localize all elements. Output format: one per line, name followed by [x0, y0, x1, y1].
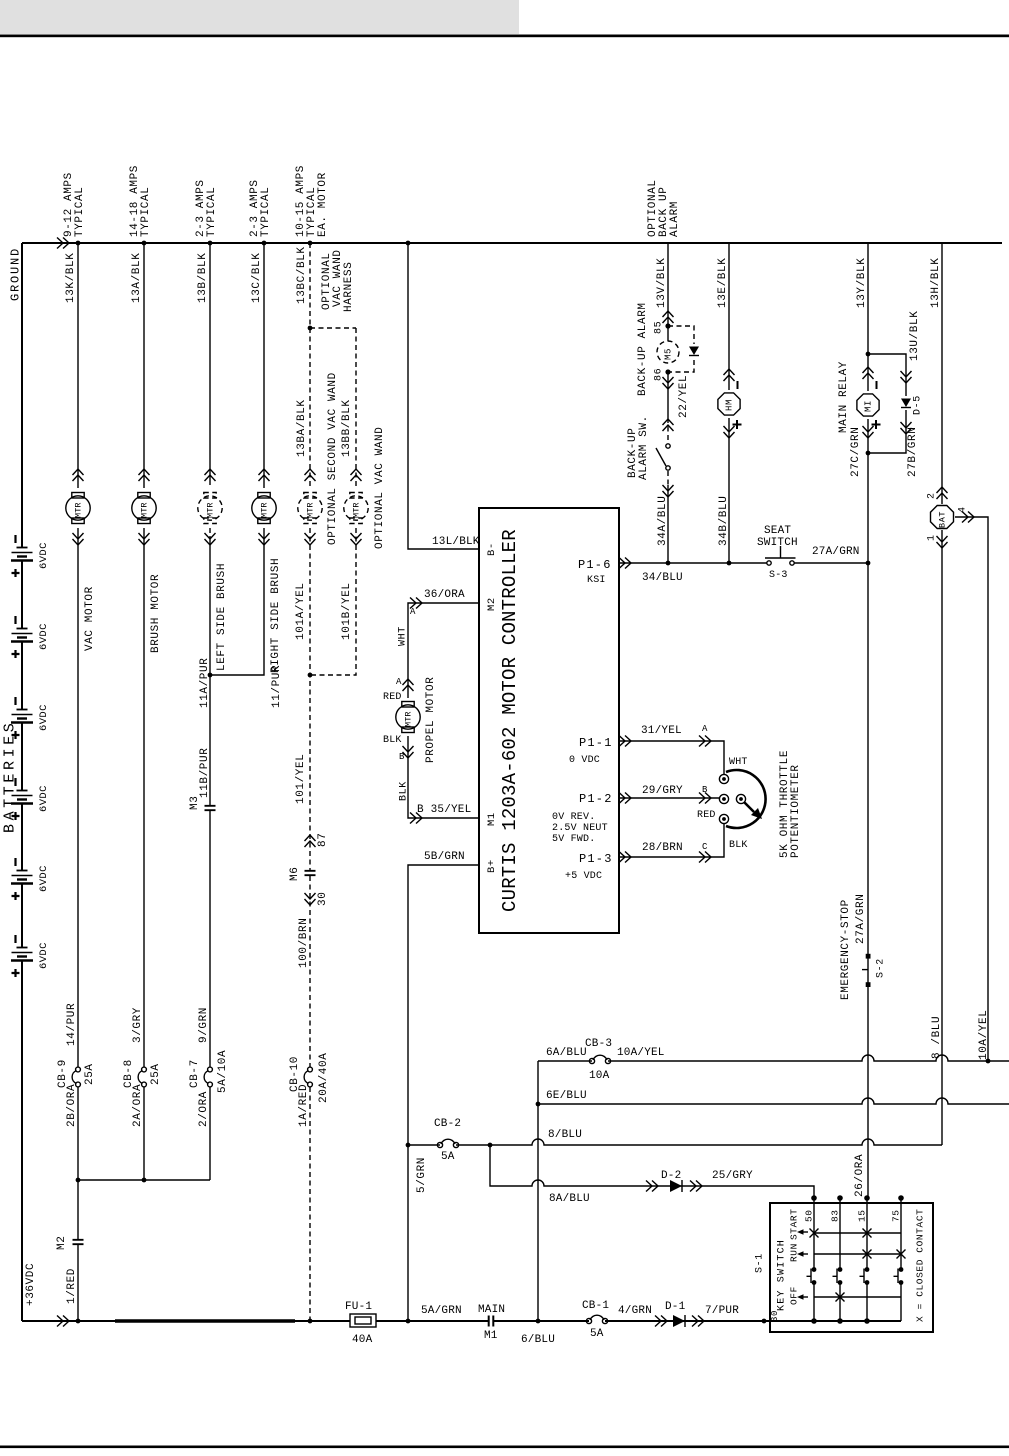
connector chevron 30 [305, 893, 316, 905]
connector chevron BAT 4 [962, 512, 974, 523]
keyswitch X start 15 [863, 1229, 872, 1238]
connector chevron P1-2 a [619, 793, 631, 804]
svg-text:34B/BLU: 34B/BLU [718, 496, 730, 546]
connector chevron P1-3 a [619, 852, 631, 863]
svg-text:D-5: D-5 [913, 395, 924, 415]
svg-text:VAC MOTOR: VAC MOTOR [84, 586, 96, 651]
node junction 5/GRN bus [406, 1319, 411, 1324]
svg-text:6/BLU: 6/BLU [521, 1334, 555, 1346]
svg-text:4: 4 [958, 506, 969, 513]
svg-text:14/PUR: 14/PUR [66, 1003, 78, 1046]
contact M2 [73, 1240, 84, 1244]
svg-text:30: 30 [770, 1310, 780, 1322]
node keyswitch pin 83 bottom [837, 1318, 843, 1324]
battery B1 6VDC [17, 547, 28, 549]
connector chevron above switch [663, 419, 674, 431]
svg-text:7/PUR: 7/PUR [705, 1305, 739, 1317]
connector chevron BAT 1 [937, 536, 948, 548]
svg-text:83: 83 [829, 1209, 840, 1222]
connector chevron D-2 right [690, 1181, 702, 1192]
svg-text:S-2: S-2 [876, 958, 887, 978]
svg-text:11A/PUR: 11A/PUR [199, 658, 211, 708]
svg-text:22/YEL: 22/YEL [678, 375, 690, 418]
svg-text:S-1: S-1 [755, 1253, 766, 1273]
svg-text:M2: M2 [56, 1236, 68, 1250]
svg-text:D-1: D-1 [665, 1301, 686, 1313]
header gray bar [0, 0, 519, 34]
svg-text:6VDC: 6VDC [38, 623, 50, 650]
connector chevron P1-6 [619, 558, 631, 569]
connector chevron col5 upper [305, 469, 316, 481]
svg-text:P1-2: P1-2 [579, 792, 613, 806]
connector chevron 87 [305, 835, 316, 847]
svg-text:M1: M1 [484, 1330, 498, 1342]
connector chevron MI bottom [863, 426, 874, 438]
node junction 8A branch [488, 1143, 493, 1148]
relay MI main relay coil [857, 394, 879, 416]
svg-text:BATTERIES: BATTERIES [1, 720, 18, 833]
svg-text:CURTIS 1203A-602 MOTOR CONTROL: CURTIS 1203A-602 MOTOR CONTROLLER [499, 529, 521, 912]
node junction 10A/YEL [986, 1059, 991, 1064]
wire 27C/GRN [867, 419, 869, 563]
label minus HM [737, 381, 739, 389]
svg-text:6VDC: 6VDC [38, 865, 50, 892]
svg-text:13A/BLK: 13A/BLK [131, 253, 143, 303]
node junction 27A emergency column [866, 561, 871, 566]
svg-text:13K/BLK: 13K/BLK [65, 253, 77, 303]
svg-text:EMERGENCY-STOP: EMERGENCY-STOP [840, 899, 852, 1000]
svg-text:MAIN: MAIN [478, 1304, 505, 1316]
node junction bus CB-10 [308, 1319, 313, 1324]
node keyswitch pin 15 top [864, 1195, 870, 1201]
connector chevron 34A [663, 485, 674, 497]
svg-text:101A/YEL: 101A/YEL [295, 582, 307, 640]
wire dashed below switch [667, 471, 669, 485]
node keyswitch pin 50 bottom [811, 1318, 817, 1324]
connector chevron P1-2 b [699, 793, 711, 804]
svg-text:6E/BLU: 6E/BLU [546, 1090, 587, 1102]
battery B2 6VDC [17, 628, 28, 630]
wire battery string [21, 243, 23, 1321]
motor M - PROPEL MOTOR [402, 702, 414, 708]
svg-text:2B/ORA: 2B/ORA [66, 1084, 78, 1127]
node junction 11A/PUR [208, 673, 213, 678]
svg-text:6VDC: 6VDC [38, 942, 50, 969]
svg-text:11/PUR: 11/PUR [271, 665, 283, 708]
wire 31/YEL [619, 741, 724, 775]
connector chevron propel B [403, 746, 414, 758]
connector chevron D-1 right [692, 1316, 704, 1327]
svg-text:13BC/BLK: 13BC/BLK [296, 246, 308, 304]
node dashed branch junction [308, 326, 313, 331]
svg-text:13E/BLK: 13E/BLK [717, 258, 729, 308]
circuit breaker CB-8 [142, 1067, 147, 1072]
wire 34A/BLU [667, 485, 669, 563]
wire 29/GRY [619, 797, 719, 799]
switch S-3 seat switch [767, 561, 771, 565]
wire dashed to switch [667, 418, 669, 443]
battery B4 6VDC [17, 790, 28, 792]
svg-text:POTENTIOMETER: POTENTIOMETER [790, 764, 802, 858]
motor M - VAC MOTOR [72, 493, 84, 499]
connector chevron col4 lower [259, 533, 270, 545]
wire keyswitch START row [814, 1232, 901, 1234]
wire 13B/BLK / 9/GRN column [209, 243, 211, 1180]
connector chevron col1 lower [73, 533, 84, 545]
svg-text:8A/BLU: 8A/BLU [549, 1193, 590, 1205]
contact M6 [305, 871, 316, 875]
svg-text:13Y/BLK: 13Y/BLK [856, 258, 868, 308]
svg-text:0V REV.: 0V REV. [552, 812, 595, 823]
bottom rule [0, 1446, 1009, 1449]
circuit breaker CB-3 [589, 1058, 594, 1063]
svg-text:0 VDC: 0 VDC [569, 755, 600, 766]
svg-text:A: A [396, 677, 402, 687]
connector chevron MI top [863, 367, 874, 379]
svg-text:2A/ORA: 2A/ORA [132, 1084, 144, 1127]
switch back-up alarm sw [666, 444, 670, 448]
ground bus [22, 242, 1002, 244]
connector chevron col1 upper [73, 469, 84, 481]
diode D-5 [901, 399, 911, 408]
wire 13BB/BLK dashed column [310, 328, 356, 675]
node keyswitch pin 75 top [898, 1195, 904, 1201]
svg-text:31/YEL: 31/YEL [641, 725, 682, 737]
svg-text:HARNESS: HARNESS [343, 262, 355, 312]
svg-text:2/ORA: 2/ORA [198, 1091, 210, 1127]
svg-text:S-3: S-3 [769, 570, 788, 581]
svg-text:P1-6: P1-6 [578, 558, 612, 572]
node ground junction col2 [142, 241, 147, 246]
connector chevron 35/YEL [410, 813, 422, 824]
connector chevron HM top [724, 369, 735, 381]
svg-text:3/GRY: 3/GRY [132, 1007, 144, 1043]
wire 13E/BLK [728, 243, 730, 390]
svg-text:RED: RED [383, 692, 402, 703]
wire dashed stubs left brush motor [209, 480, 211, 536]
svg-text:MTR: MTR [140, 502, 150, 518]
wire 28/BRN [619, 823, 724, 857]
svg-text:10A/YEL: 10A/YEL [617, 1047, 665, 1059]
svg-text:13V/BLK: 13V/BLK [656, 258, 668, 308]
svg-text:B-: B- [486, 542, 498, 556]
connector chevron P1-1 b [699, 736, 711, 747]
node keyswitch pin 50 top [811, 1195, 817, 1201]
svg-text:13BB/BLK: 13BB/BLK [341, 399, 353, 457]
svg-text:86: 86 [654, 368, 665, 381]
label plus HM [733, 420, 742, 429]
svg-text:P1-1: P1-1 [579, 736, 613, 750]
connector chevron P1-1 a [619, 736, 631, 747]
svg-text:B: B [399, 752, 405, 762]
svg-text:LEFT SIDE BRUSH: LEFT SIDE BRUSH [216, 563, 228, 671]
keyswitch contact 3 [865, 1267, 870, 1272]
node keyswitch pin 83 top [837, 1195, 843, 1201]
label plus MI [872, 420, 881, 429]
svg-text:4/GRN: 4/GRN [618, 1305, 652, 1317]
keyswitch X run 15 [863, 1250, 872, 1259]
svg-text:OFF: OFF [788, 1286, 799, 1305]
svg-text:29/GRY: 29/GRY [642, 785, 683, 797]
wire 8/BLU column [941, 530, 943, 1145]
wire 27A/GRN emergency [867, 563, 869, 1198]
svg-text:13B/BLK: 13B/BLK [197, 253, 209, 303]
svg-text:13L/BLK: 13L/BLK [432, 536, 480, 548]
node junction relay bottom [866, 451, 871, 456]
svg-text:87: 87 [317, 833, 329, 847]
svg-text:BRUSH MOTOR: BRUSH MOTOR [150, 574, 162, 653]
svg-text:MAIN RELAY: MAIN RELAY [838, 361, 850, 433]
node junction col5 wand join [308, 673, 313, 678]
svg-text:101/YEL: 101/YEL [295, 754, 307, 804]
node junction row col2 [142, 1178, 147, 1183]
node junction bus 6/BLU [536, 1319, 541, 1324]
keyswitch X off 83 [836, 1293, 845, 1302]
svg-text:25A: 25A [84, 1063, 96, 1085]
switch S-1 key switch box [770, 1203, 933, 1332]
wire 13C/BLK column [210, 243, 264, 675]
connector chevron col4 upper [259, 469, 270, 481]
svg-text:WHT: WHT [398, 626, 409, 646]
label minus MI [876, 381, 878, 389]
wire 8A/BLU - 25/GRY [490, 1145, 814, 1198]
svg-text:+36VDC: +36VDC [25, 1263, 37, 1306]
wire bus heavy segment [115, 1319, 295, 1322]
circuit breaker CB-9 [76, 1067, 81, 1072]
svg-text:ALARM: ALARM [669, 201, 681, 237]
svg-text:START: START [788, 1208, 799, 1240]
svg-text:2: 2 [927, 492, 938, 499]
node junction bus col1 [76, 1319, 81, 1324]
svg-text:6VDC: 6VDC [38, 785, 50, 812]
wire 13BC/BLK dashed column [309, 243, 311, 1321]
svg-text:RUN: RUN [788, 1243, 799, 1262]
node junction 34A [666, 561, 671, 566]
wire keyswitch column 50 [813, 1198, 815, 1321]
battery B5 6VDC [17, 870, 28, 872]
keyswitch contact 4 [899, 1267, 904, 1272]
svg-text:6A/BLU: 6A/BLU [546, 1047, 587, 1059]
svg-text:M6: M6 [289, 867, 301, 881]
circuit breaker CB-1 [586, 1318, 591, 1323]
svg-text:BLK: BLK [383, 735, 402, 746]
svg-text:8/BLU: 8/BLU [548, 1129, 582, 1141]
svg-text:25/GRY: 25/GRY [712, 1170, 753, 1182]
svg-text:2.5V NEUT: 2.5V NEUT [552, 823, 608, 834]
svg-text:13H/BLK: 13H/BLK [930, 258, 942, 308]
svg-text:27A/GRN: 27A/GRN [812, 546, 860, 558]
svg-text:13U/BLK: 13U/BLK [909, 311, 921, 361]
wire 35/YEL M1 [408, 736, 479, 818]
svg-text:GROUND: GROUND [8, 247, 22, 301]
connector chevron P1-3 b [699, 852, 711, 863]
diode D-2 [670, 1180, 682, 1192]
svg-text:MTR: MTR [404, 711, 414, 727]
svg-text:M3: M3 [189, 796, 201, 810]
wire keyswitch OFF row [814, 1296, 901, 1298]
wire diode branch dashed [668, 326, 694, 372]
connector chevron col6 upper [351, 469, 362, 481]
svg-text:CB-8: CB-8 [123, 1059, 135, 1088]
wire 34/BLU [619, 562, 868, 564]
svg-text:25A: 25A [150, 1063, 162, 1085]
svg-text:+5 VDC: +5 VDC [565, 871, 602, 882]
connector chevron D-1 left [655, 1316, 667, 1327]
svg-text:OPTIONAL VAC WAND: OPTIONAL VAC WAND [374, 427, 386, 549]
svg-text:P1-3: P1-3 [579, 852, 613, 866]
wire 6E/BLU [538, 1098, 1009, 1104]
svg-text:13C/BLK: 13C/BLK [251, 253, 263, 303]
svg-text:B 35/YEL: B 35/YEL [417, 804, 471, 816]
svg-text:36/ORA: 36/ORA [424, 589, 465, 601]
motor M - OPTIONAL SECOND VAC WAND (dashed) [304, 493, 316, 499]
svg-text:5A: 5A [590, 1328, 604, 1340]
keyswitch contact 2 [838, 1267, 843, 1272]
svg-text:A: A [702, 724, 708, 734]
motor M - OPTIONAL VAC WAND (dashed) [350, 493, 362, 499]
wire 13Y/BLK [867, 243, 869, 391]
meter HM hour meter [718, 393, 740, 415]
svg-text:9/GRN: 9/GRN [198, 1007, 210, 1043]
svg-text:PROPEL MOTOR: PROPEL MOTOR [425, 677, 437, 763]
wire 34B/BLU [728, 418, 730, 563]
wire 13L/BLK [408, 243, 479, 549]
node keyswitch pin 15 bottom [864, 1318, 870, 1324]
svg-text:CB-3: CB-3 [585, 1038, 612, 1050]
node junction relay top [866, 352, 871, 357]
svg-text:M2: M2 [486, 597, 498, 611]
wire BAT pin 4 [955, 517, 988, 1061]
circuit breaker CB-7 [208, 1067, 213, 1072]
wire below 86 [667, 372, 669, 418]
svg-text:KSI: KSI [587, 575, 606, 586]
svg-text:M5: M5 [664, 348, 674, 360]
connector chevron 36/ORA [410, 598, 422, 609]
svg-text:OPTIONAL SECOND VAC WAND: OPTIONAL SECOND VAC WAND [327, 372, 339, 545]
wire keyswitch RUN row [814, 1253, 901, 1255]
diode backup alarm [689, 347, 699, 356]
svg-text:SWITCH: SWITCH [757, 537, 798, 549]
fuse FU-1 40A [350, 1314, 376, 1327]
svg-text:27C/GRN: 27C/GRN [850, 427, 862, 477]
wire 13V/BLK [667, 243, 669, 341]
connector chevron 13V [663, 311, 674, 323]
svg-text:RIGHT SIDE BRUSH: RIGHT SIDE BRUSH [270, 558, 282, 673]
node ground junction col4 [262, 241, 267, 246]
svg-text:X = CLOSED CONTACT: X = CLOSED CONTACT [914, 1209, 925, 1322]
diode D-1 [673, 1315, 685, 1327]
wire 13A/BLK / 3/GRY column [143, 243, 145, 1180]
keyswitch contact 1 [812, 1267, 817, 1272]
svg-text:5A: 5A [441, 1151, 455, 1163]
keyswitch X run 75 [897, 1250, 906, 1259]
connector chevron col2 upper [139, 469, 150, 481]
arrow off [797, 1294, 804, 1300]
svg-text:CB-2: CB-2 [434, 1118, 461, 1130]
svg-text:A: A [410, 607, 416, 617]
connector chevrons +36VDC [57, 1316, 69, 1327]
svg-text:B+: B+ [486, 859, 498, 873]
connector chevron D-5 top [901, 371, 912, 383]
node junction keyswitch 30 [762, 1319, 767, 1324]
svg-text:13BA/BLK: 13BA/BLK [296, 399, 308, 457]
svg-text:1A/RED: 1A/RED [298, 1084, 310, 1127]
op-amp U1 CURTIS 1203A-602 MOTOR CONTROLLER box [479, 508, 619, 933]
motor M - BRUSH MOTOR [138, 493, 150, 499]
node junction 6E/BLU [536, 1102, 541, 1107]
connector chevron col3 lower [205, 533, 216, 545]
svg-text:FU-1: FU-1 [345, 1301, 372, 1313]
node pin 86 [665, 369, 670, 374]
wire junction row CB-9/CB-8/CB-7 [78, 1179, 210, 1181]
svg-text:1: 1 [927, 534, 938, 541]
svg-text:100/BRN: 100/BRN [298, 918, 310, 968]
connector chevron col3 upper [205, 469, 216, 481]
svg-text:10A: 10A [589, 1070, 610, 1082]
svg-text:EA. MOTOR: EA. MOTOR [317, 172, 329, 237]
battery B6 6VDC [17, 947, 28, 949]
wire 5B/GRN B+ [408, 865, 479, 1321]
svg-text:MI: MI [864, 400, 874, 412]
svg-text:M1: M1 [486, 812, 498, 826]
svg-text:5/GRN: 5/GRN [416, 1157, 428, 1193]
svg-text:6VDC: 6VDC [38, 542, 50, 569]
svg-text:27A/GRN: 27A/GRN [855, 894, 867, 944]
connector chevron col2 lower [139, 533, 150, 545]
svg-text:26/ORA: 26/ORA [854, 1154, 866, 1197]
wire D-5 branch [868, 354, 906, 453]
wire dashed branch to second wand [310, 327, 356, 329]
svg-text:30: 30 [317, 892, 329, 906]
contact M1 MAIN [489, 1316, 494, 1327]
potentiometer 5K throttle [726, 770, 766, 828]
svg-text:CB-1: CB-1 [582, 1300, 609, 1312]
svg-text:5A/GRN: 5A/GRN [421, 1305, 462, 1317]
svg-text:RED: RED [697, 810, 716, 821]
arrow run [797, 1251, 804, 1257]
connector chevron col6 lower [351, 533, 362, 545]
wire keyswitch column 75 [900, 1198, 902, 1321]
svg-text:WHT: WHT [729, 757, 748, 768]
svg-text:1/RED: 1/RED [66, 1268, 78, 1304]
node junction 34B [727, 561, 732, 566]
svg-text:TYPICAL: TYPICAL [74, 187, 86, 237]
gauge BAT battery meter [931, 506, 954, 529]
svg-text:MTR: MTR [352, 502, 362, 518]
connector chevron HM bottom [724, 426, 735, 438]
svg-text:15: 15 [856, 1209, 867, 1222]
svg-text:28/BRN: 28/BRN [642, 842, 683, 854]
wire 13K/BLK / 14/PUR column [77, 243, 79, 1321]
svg-text:D-2: D-2 [661, 1170, 681, 1182]
connector chevron D-2 left [646, 1181, 658, 1192]
svg-text:MTR: MTR [260, 502, 270, 518]
connector chevron col5 lower [305, 533, 316, 545]
svg-text:BLK: BLK [729, 840, 748, 851]
wire keyswitch column 83 [839, 1198, 841, 1321]
svg-text:BAT: BAT [938, 511, 948, 528]
battery B3 6VDC [17, 709, 28, 711]
svg-text:KEY SWITCH: KEY SWITCH [777, 1239, 788, 1311]
node ground junction col5 [308, 241, 313, 246]
top rule [0, 35, 1009, 38]
svg-text:11B/PUR: 11B/PUR [199, 748, 211, 798]
svg-text:5B/GRN: 5B/GRN [424, 851, 465, 863]
svg-text:5A/10A: 5A/10A [217, 1050, 229, 1093]
svg-text:C: C [702, 842, 708, 852]
arrow start [797, 1229, 804, 1235]
svg-text:50: 50 [803, 1209, 814, 1222]
